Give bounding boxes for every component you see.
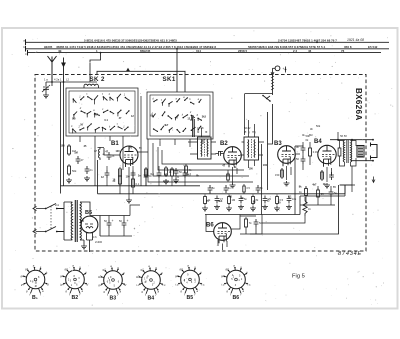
resistor Rr5 (252, 195, 254, 197)
antenna terminal (48, 56, 57, 82)
scan noise (163, 84, 166, 87)
ground (202, 206, 208, 211)
svg-text:Fig 5: Fig 5 (292, 274, 305, 280)
wire T3 secondary leads (80, 202, 90, 244)
capacitor Cb1 (208, 185, 213, 193)
loudspeaker coil (357, 146, 364, 158)
ground (84, 176, 90, 181)
resistor Rl2 (119, 167, 121, 169)
bus junction dots (176, 48, 178, 50)
wire top bus line 3 (27, 52, 381, 54)
capacitor C9 (254, 219, 259, 227)
svg-text:g2: g2 (221, 274, 225, 278)
svg-text:B6: B6 (233, 295, 240, 301)
svg-text:BX626A: BX626A (354, 88, 363, 121)
svg-text:B1: B1 (111, 141, 119, 147)
capacitor Cb2 (224, 185, 229, 193)
ground (230, 183, 236, 188)
svg-text:56 82: 56 82 (244, 126, 251, 130)
svg-text:45865 61 4474 7442 5 2648: 45865 61 4474 7442 5 2648 2 844540754 85… (56, 45, 216, 49)
svg-text:g1: g1 (141, 267, 145, 271)
svg-text:0.1: 0.1 (288, 195, 292, 198)
svg-text:g2: g2 (60, 274, 64, 278)
svg-text:g2: g2 (21, 274, 25, 278)
svg-text:50 50: 50 50 (340, 134, 347, 138)
tube base B6 (227, 270, 246, 289)
svg-text:50k: 50k (316, 124, 321, 128)
wire top bus line 2 (25, 48, 389, 50)
ground (238, 205, 244, 210)
svg-text:i.c.: i.c. (248, 282, 252, 286)
capacitor C2 (76, 156, 81, 164)
svg-text:+: + (283, 67, 285, 71)
ground (274, 206, 280, 211)
pointer arrow (126, 68, 130, 72)
capacitor C11 electrolytic (107, 220, 112, 228)
wire detector (295, 142, 310, 170)
tube base B₁ (26, 270, 45, 289)
switch link dashed (50, 206, 52, 229)
chassis dashed boundary (35, 75, 366, 252)
ground (66, 178, 72, 183)
svg-text:92205: 92205 (44, 45, 53, 49)
power transformer T3 secondary (80, 202, 81, 240)
svg-text:3k3: 3k3 (202, 115, 207, 118)
capacitor Cb3 (256, 185, 261, 193)
svg-text:+: + (112, 219, 114, 223)
svg-text:4k7: 4k7 (187, 173, 192, 176)
tube B4 (318, 145, 336, 163)
wire SK1 feed (176, 49, 178, 92)
switch SK1 (147, 92, 213, 139)
svg-text:10k: 10k (292, 197, 297, 201)
resistor Rl4 (145, 167, 147, 169)
resistor Rl6 (171, 167, 173, 169)
capacitor C13 (107, 152, 112, 160)
tube B5 rectifier (81, 216, 98, 233)
capacitor Cr6 (263, 196, 268, 204)
svg-text:2 6754 11825487 78652 1 4667: 2 6754 11825487 78652 1 4667 254 68 76 7 (278, 38, 337, 42)
resistor R8 (321, 170, 323, 172)
svg-text:L2: L2 (66, 78, 69, 82)
svg-text:g2: g2 (175, 274, 179, 278)
svg-text:B3: B3 (274, 141, 282, 147)
earth terminal arrow (62, 58, 66, 83)
svg-text:76: 76 (341, 49, 345, 53)
ground (286, 205, 292, 210)
resistor Rh1 (165, 166, 167, 168)
svg-text:014: 014 (196, 49, 201, 53)
svg-text:3k3: 3k3 (218, 200, 223, 203)
mains switch contact 1 (45, 208, 47, 210)
svg-text:g1: g1 (65, 267, 69, 271)
svg-text:B2: B2 (220, 141, 228, 147)
resistor Rb3 (243, 184, 245, 186)
resistor R7 (309, 146, 311, 148)
svg-text:1M: 1M (232, 198, 236, 202)
svg-text:100: 100 (249, 168, 254, 171)
svg-text:B2: B2 (72, 295, 79, 301)
resistor Rr3 (228, 195, 230, 197)
svg-text:47: 47 (81, 158, 84, 162)
svg-text:g1: g1 (25, 267, 29, 271)
wire S2 leads (240, 142, 264, 155)
resistor R4 (132, 177, 134, 179)
wire T2 secondary return (300, 166, 355, 196)
ground (250, 206, 256, 211)
resistor R2 (68, 164, 70, 166)
svg-text:4k7: 4k7 (164, 124, 169, 127)
wire pickup drop (268, 68, 275, 190)
pickup connector circle (275, 66, 280, 71)
ground (226, 206, 232, 211)
svg-text:2x1: 2x1 (55, 204, 60, 207)
svg-text:356 8: 356 8 (344, 45, 352, 49)
ground (81, 244, 87, 249)
svg-text:65E245: 65E245 (140, 49, 151, 53)
wire cap leads (109, 216, 124, 237)
resistor Rh2 (185, 164, 187, 166)
svg-text:g1: g1 (103, 267, 107, 271)
wire S2 risers (249, 120, 255, 168)
ground (262, 205, 268, 210)
svg-text:B5: B5 (187, 295, 194, 301)
ground (43, 93, 49, 98)
ground (126, 198, 132, 203)
capacitor C3 (85, 166, 90, 174)
svg-text:i.c.: i.c. (175, 282, 179, 286)
svg-text:g1: g1 (180, 267, 184, 271)
wire lower bus 1 (61, 185, 201, 187)
svg-text:4 2a 1: 4 2a 1 (54, 78, 62, 82)
svg-text:47 68: 47 68 (197, 126, 204, 130)
svg-text:SK 2: SK 2 (90, 76, 106, 83)
IF transformer S1 (198, 137, 212, 159)
earth tick right of pickup (285, 67, 287, 73)
coil L3 (99, 147, 100, 160)
wire B2 pins (228, 167, 237, 183)
svg-text:SK1: SK1 (163, 76, 176, 83)
svg-text:g1: g1 (226, 267, 230, 271)
svg-text:4E: 4E (58, 49, 62, 53)
capacitor Cl5 (157, 170, 162, 178)
wire HT riser (130, 205, 140, 216)
resistor R9 (245, 217, 247, 219)
capacitor C4 (144, 172, 149, 180)
ground (163, 179, 169, 184)
wire pickup switch (245, 94, 273, 135)
svg-text:g2: g2 (136, 274, 140, 278)
wire feedback (300, 186, 335, 205)
svg-text:0.5: 0.5 (175, 176, 179, 179)
svg-text:B4: B4 (148, 296, 155, 302)
wire S1 risers (193, 117, 202, 137)
resistor R12 (339, 146, 341, 148)
mains terminals (33, 207, 45, 234)
svg-text:i.c.: i.c. (136, 283, 140, 287)
svg-text:87434E: 87434E (338, 251, 362, 257)
switch SK2 (66, 88, 138, 136)
ground (324, 183, 330, 188)
capacitor C10 (329, 189, 334, 197)
power transformer core (75, 200, 77, 242)
wire lower bus 3 (205, 185, 352, 215)
wire feedback long L (250, 185, 339, 234)
svg-text:0.1: 0.1 (151, 173, 155, 176)
ground (214, 205, 220, 210)
coil above SK2 (84, 84, 98, 88)
wire T2 leads (338, 132, 356, 166)
svg-text:B3: B3 (110, 296, 117, 302)
svg-text:5 8E51 64316 0 475 06E35 37 55: 5 8E51 64316 0 475 06E35 37 55605E012543… (84, 38, 177, 42)
speaker field tick (372, 177, 375, 183)
capacitor Cr8 (287, 196, 292, 204)
svg-text:46: 46 (308, 49, 312, 53)
wire harness nest 2 (162, 150, 253, 182)
wire B5 pins (87, 233, 93, 253)
capacitor Cl7 (183, 170, 188, 178)
resistor R5 (227, 172, 229, 174)
tube B2 (224, 147, 242, 165)
tube base B5 (181, 270, 200, 289)
tube base B4 (142, 271, 161, 290)
capacitor Cr2 (215, 196, 220, 204)
wire harness risers (190, 115, 223, 152)
svg-text:E5 542: E5 542 (368, 45, 378, 49)
svg-text:2658 5: 2658 5 (238, 49, 247, 53)
wire detector vertical (262, 144, 296, 215)
tube B6 (214, 223, 232, 241)
shield ticks (271, 76, 274, 90)
svg-text:5665574628 0 E38 729 8 666 557: 5665574628 0 E38 729 8 666 557 8 3758241… (248, 45, 326, 49)
svg-text:100: 100 (116, 150, 121, 153)
loudspeaker cone bracket (371, 143, 378, 160)
svg-text:g4: g4 (21, 282, 25, 286)
resistor R11 (317, 188, 319, 190)
svg-text:1M: 1M (74, 152, 77, 155)
mains switch contact 2 (45, 231, 47, 233)
tube B3 (278, 146, 296, 164)
wire B1 grid (104, 148, 148, 155)
capacitor Cl1 (105, 170, 110, 178)
svg-text:B6: B6 (206, 223, 214, 229)
tube B1 (120, 146, 138, 164)
capacitor C6 (301, 145, 306, 153)
svg-text:g2: g2 (98, 274, 102, 278)
svg-text:50k: 50k (72, 169, 77, 173)
wire B6 right (240, 215, 262, 235)
svg-text:2n: 2n (90, 168, 93, 172)
wire B3 pins (282, 166, 291, 180)
svg-text:-: - (134, 233, 135, 237)
svg-text:4k7: 4k7 (312, 184, 317, 187)
ground (173, 178, 179, 183)
resistor Rr1 (204, 195, 206, 197)
IF transformer S2 (244, 137, 259, 160)
bus terminal ticks (26, 39, 28, 55)
svg-text:i.c.: i.c. (163, 283, 167, 287)
svg-text:+: + (127, 219, 129, 223)
svg-text:150: 150 (275, 173, 280, 177)
svg-text:g4: g4 (98, 283, 102, 287)
resistor R10 (305, 187, 307, 189)
svg-text:B4: B4 (314, 139, 322, 145)
capacitor Cl3 (131, 170, 136, 178)
resistor R6 (281, 168, 283, 170)
capacitor Cr4 (239, 196, 244, 204)
wire lower bus 2 (98, 160, 346, 194)
capacitor C7 (301, 156, 306, 164)
capacitor Ch1 (174, 168, 179, 176)
wire top bus line 1 (25, 41, 389, 43)
wire B1 grid feed (98, 147, 105, 149)
trimmer capacitor C1 (42, 82, 50, 93)
wire B6 pins (206, 215, 240, 251)
svg-text:1 a: 1 a (44, 78, 48, 82)
wire gang link rail (97, 71, 185, 92)
output transformer T2 (343, 141, 344, 163)
capacitor C12 electrolytic (122, 220, 127, 228)
capacitor C8 (329, 172, 334, 180)
svg-text:0.1: 0.1 (104, 119, 108, 122)
node antenna junction (51, 81, 53, 83)
svg-text:1921 4a 08: 1921 4a 08 (347, 38, 364, 42)
wire left risers (61, 82, 64, 194)
svg-text:g4: g4 (60, 282, 64, 286)
wire R13 return (262, 197, 305, 223)
svg-text:+: + (134, 227, 136, 231)
wire smoothing top (90, 216, 132, 237)
svg-text:4 6: 4 6 (93, 235, 97, 239)
svg-text:0.5: 0.5 (72, 118, 76, 121)
svg-text:2 2: 2 2 (293, 49, 298, 53)
switch contact pickup (262, 95, 264, 97)
resistor R13 zigzag (303, 201, 307, 216)
tube base B2 (66, 270, 85, 289)
capacitor C5 grid (216, 151, 224, 156)
wire SK2 stubs (80, 136, 123, 186)
svg-text:2n: 2n (138, 174, 141, 177)
svg-text:100: 100 (126, 176, 131, 179)
wire SK1 stubs (160, 139, 203, 147)
resistor R1 (68, 144, 70, 146)
svg-text:i.c.: i.c. (202, 282, 206, 286)
svg-text:2x300: 2x300 (95, 240, 103, 244)
svg-text:B₁: B₁ (32, 295, 38, 301)
svg-text:i.c.: i.c. (221, 282, 225, 286)
svg-text:50k: 50k (306, 134, 311, 138)
svg-text:100: 100 (263, 164, 268, 167)
svg-text:100: 100 (61, 145, 66, 148)
power transformer T3 primary (64, 202, 72, 240)
wire harness nest 1 (141, 96, 205, 186)
wire speaker leads (330, 140, 373, 161)
svg-text:4k7: 4k7 (94, 114, 99, 117)
ground (284, 181, 290, 186)
wire B4 pins (322, 167, 332, 182)
wire heater drop (90, 53, 101, 82)
tube base B3 (104, 271, 123, 290)
resistor R3 (119, 174, 121, 176)
wire B1 cathode (120, 167, 146, 198)
wire S1 leads (188, 142, 216, 154)
resistor Rr7 (276, 195, 278, 197)
